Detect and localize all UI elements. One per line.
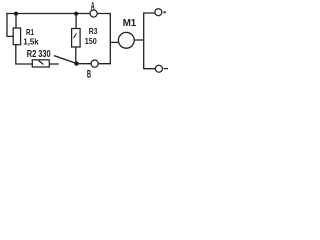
svg-text:M1: M1 [123,18,137,29]
svg-text:1,5k: 1,5k [23,36,39,46]
svg-text:A: A [91,0,95,12]
svg-text:B: B [87,68,91,80]
svg-text:150: 150 [85,36,97,46]
svg-text:R3: R3 [89,27,98,36]
svg-text:R2 330: R2 330 [27,49,51,60]
